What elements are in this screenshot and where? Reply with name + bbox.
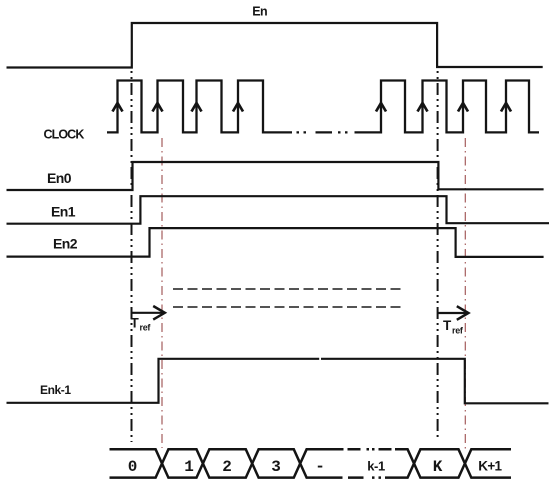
svg-text:K: K [433, 458, 443, 476]
clock edge arrow 7 [458, 103, 468, 112]
bus lower polyline (crossing) [110, 449, 343, 477]
En2 waveform [7, 228, 544, 257]
clock edge arrow 5 [376, 103, 386, 112]
svg-text:3: 3 [271, 458, 281, 476]
clock edge arrow 6 [418, 103, 428, 112]
bus upper polyline (crossing) [110, 449, 344, 477]
svg-text:0: 0 [128, 458, 138, 476]
svg-text:En2: En2 [53, 236, 78, 252]
clock waveform left group [107, 81, 292, 133]
clock edge arrow 8 [501, 103, 511, 112]
vertical ref line red right (x=465.3) [464, 138, 466, 449]
svg-text:-: - [315, 458, 325, 476]
svg-text:En0: En0 [47, 170, 72, 186]
clock edge arrow 4 [233, 103, 243, 112]
svg-text:Enk-1: Enk-1 [40, 383, 71, 397]
svg-text:ref: ref [452, 326, 464, 336]
bus dashed break top [348, 448, 392, 451]
clock break dash-dot-dot [297, 131, 348, 133]
clock edge arrow 3 [192, 103, 202, 112]
svg-text:K+1: K+1 [478, 459, 502, 474]
svg-text:En: En [252, 5, 267, 19]
svg-text:CLOCK: CLOCK [44, 128, 85, 142]
svg-text:k-1: k-1 [367, 459, 385, 474]
clock edge arrow 2 [153, 103, 163, 112]
clock edge arrow 1 [113, 103, 123, 112]
svg-text:En1: En1 [51, 204, 76, 220]
clock waveform right group [355, 81, 540, 133]
Enk-1 waveform [7, 359, 549, 404]
vertical ref line red left (x=162) [161, 138, 163, 448]
Tref arrow right [438, 312, 467, 314]
En waveform [7, 23, 543, 68]
vertical ref line black right (x=437.6) [437, 71, 439, 441]
En0 waveform [7, 162, 544, 190]
Tref arrow left [132, 312, 164, 314]
svg-text:T: T [443, 318, 452, 333]
bus dashed break bottom [348, 476, 381, 479]
vertical ref line black left (x=131.5) [131, 71, 133, 442]
svg-text:ref: ref [140, 323, 152, 333]
svg-text:2: 2 [222, 458, 232, 476]
dashed horizontal line upper [173, 288, 401, 290]
svg-text:T: T [131, 316, 140, 331]
tiny gap in Enk-1 high line [319, 357, 321, 361]
svg-text:1: 1 [184, 458, 194, 476]
En1 waveform [7, 196, 550, 224]
dashed horizontal line lower [173, 306, 404, 308]
